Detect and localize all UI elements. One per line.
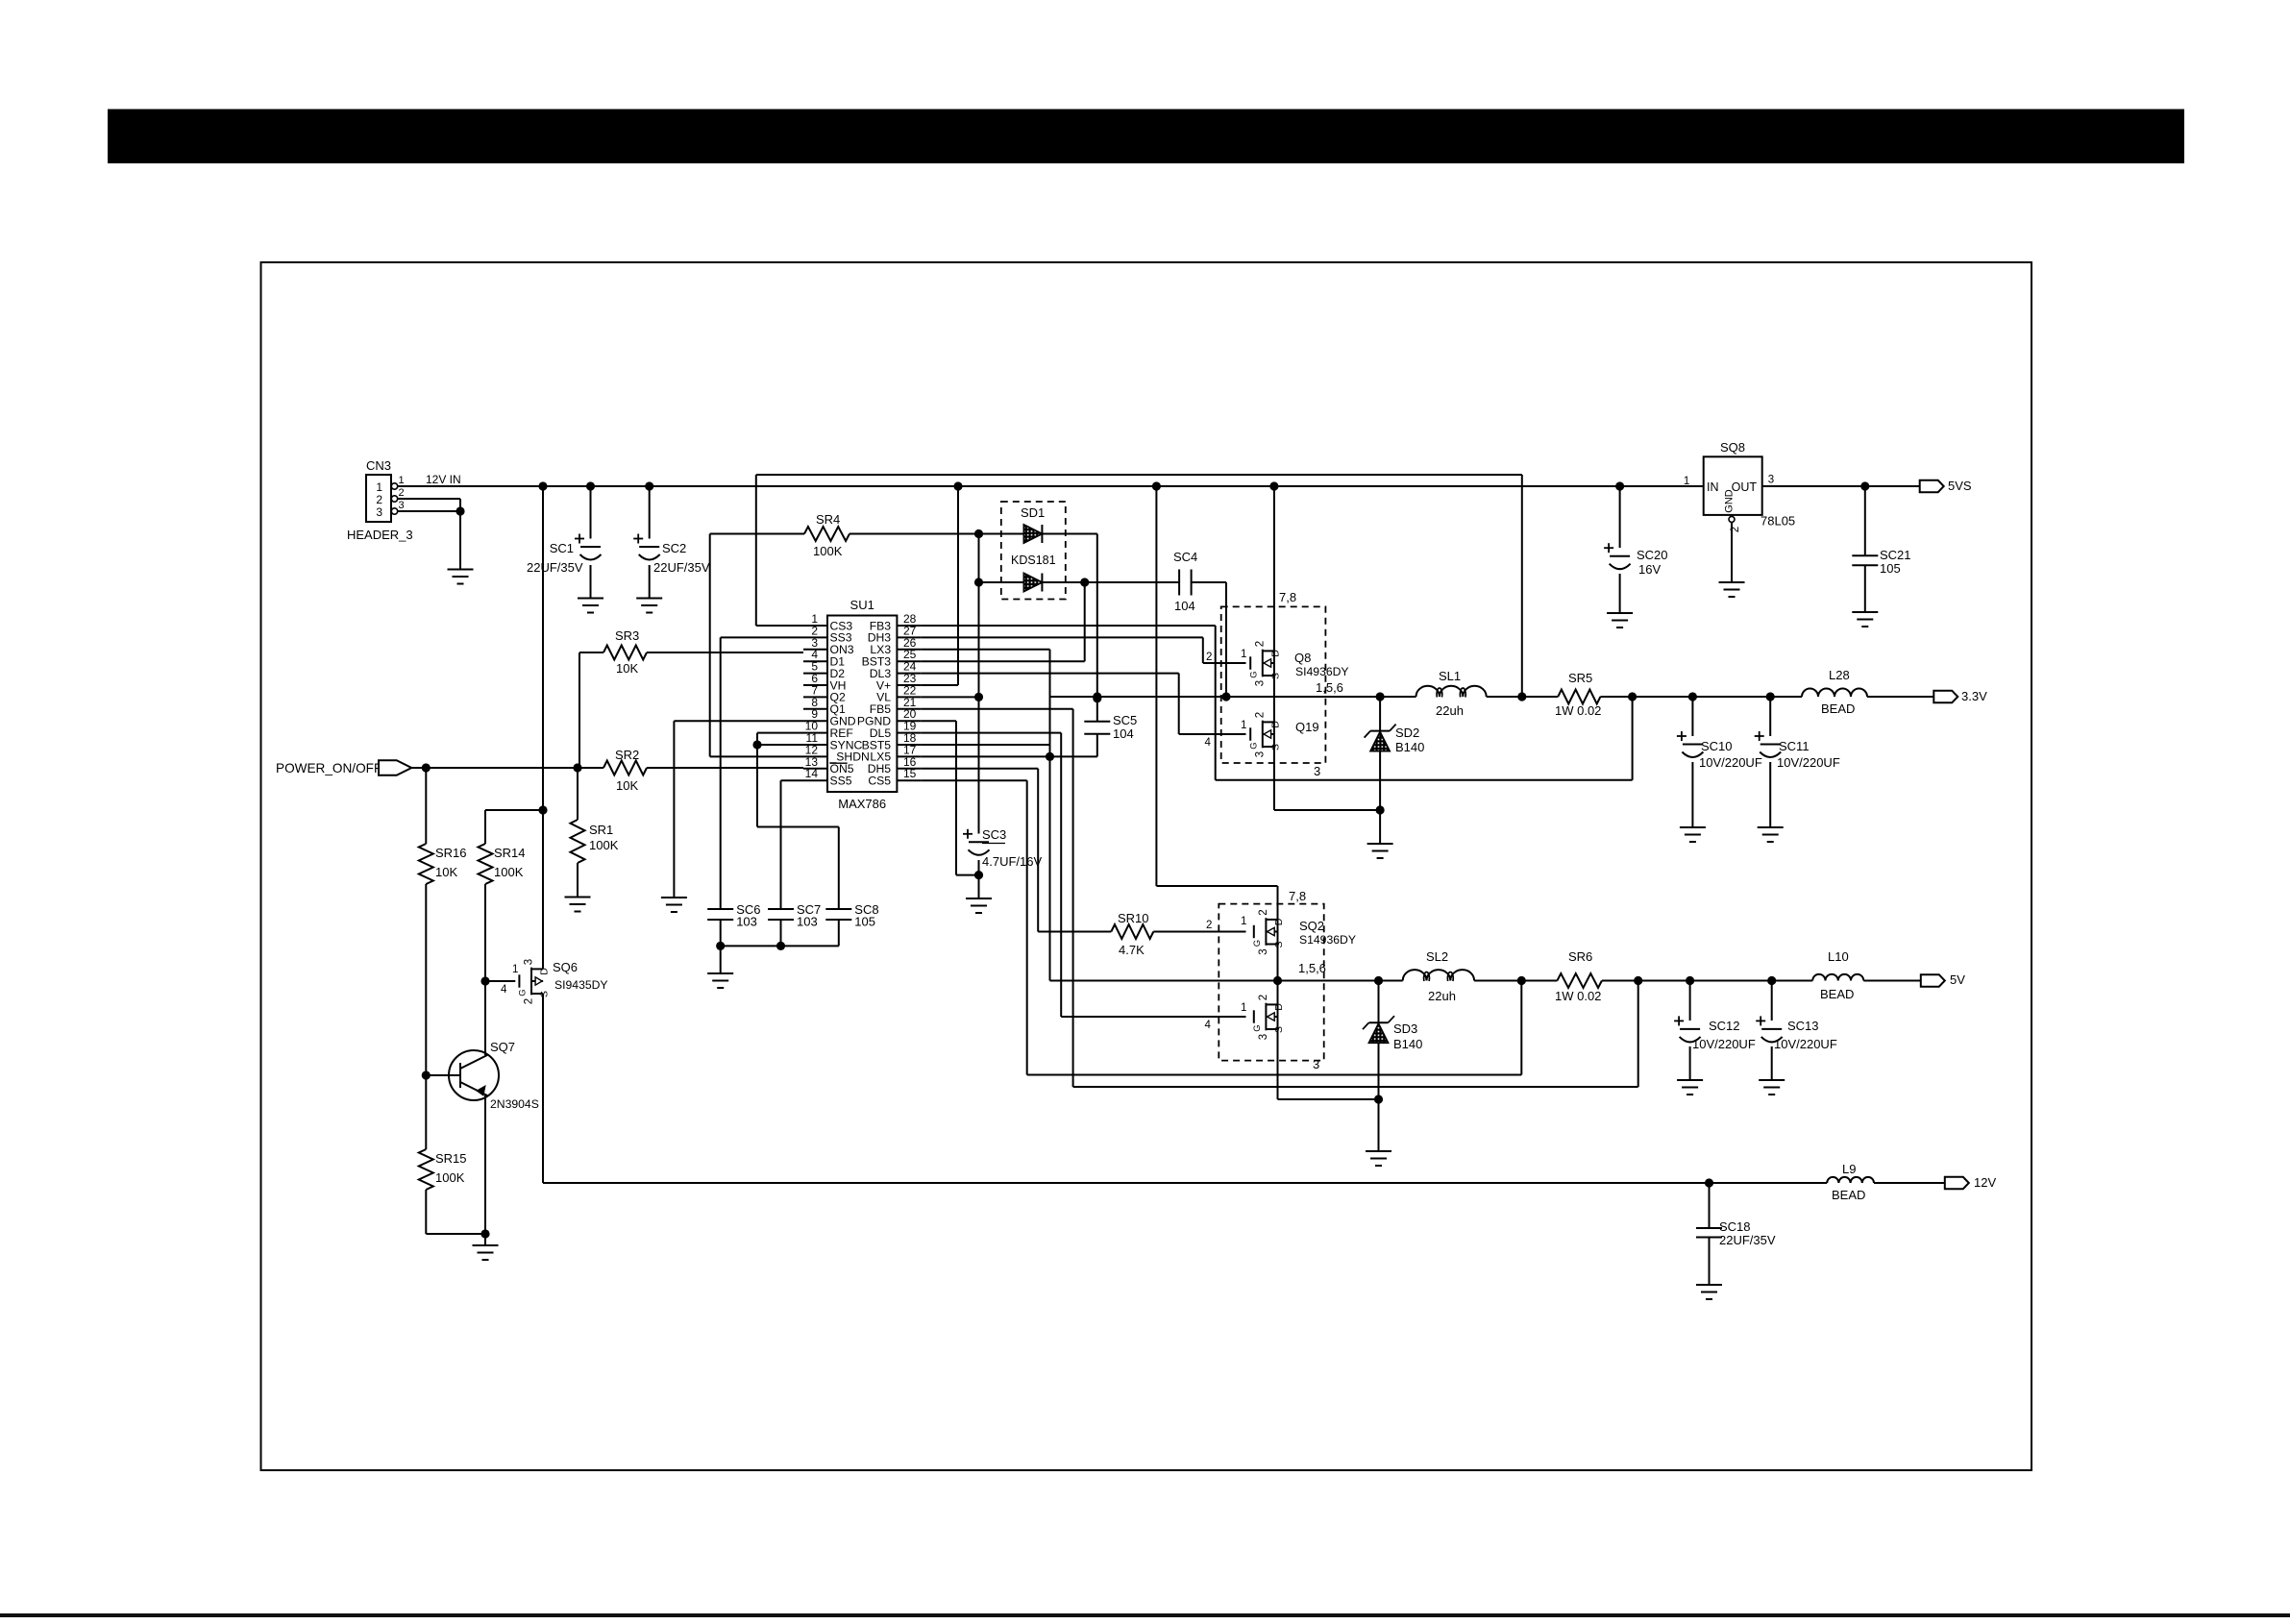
svg-text:1: 1 (1241, 1002, 1246, 1014)
svg-text:12V IN: 12V IN (426, 473, 461, 486)
svg-text:4: 4 (501, 984, 507, 996)
svg-text:SC11: SC11 (1779, 739, 1810, 753)
svg-text:5VS: 5VS (1948, 479, 1972, 493)
svg-text:B140: B140 (1395, 740, 1424, 754)
svg-text:100K: 100K (435, 1170, 465, 1185)
svg-text:SC2: SC2 (662, 541, 686, 555)
svg-text:HEADER_3: HEADER_3 (347, 528, 413, 542)
svg-text:SD1: SD1 (1021, 505, 1045, 520)
svg-text:14: 14 (805, 767, 819, 780)
svg-text:B140: B140 (1393, 1037, 1422, 1051)
svg-text:L9: L9 (1842, 1162, 1856, 1176)
svg-text:D: D (1273, 918, 1285, 925)
svg-text:S: S (1273, 1026, 1285, 1033)
svg-text:16V: 16V (1638, 562, 1661, 577)
svg-text:1,5,6: 1,5,6 (1316, 680, 1343, 695)
svg-text:SQ2: SQ2 (1299, 919, 1324, 933)
svg-text:3: 3 (1258, 948, 1269, 954)
svg-text:D: D (539, 968, 551, 975)
svg-text:G: G (1252, 940, 1263, 947)
svg-text:SI9435DY: SI9435DY (554, 978, 608, 992)
svg-text:SR1: SR1 (589, 823, 613, 837)
svg-text:SD3: SD3 (1393, 1021, 1417, 1036)
svg-text:D: D (1269, 650, 1281, 657)
svg-text:POWER_ON/OFF: POWER_ON/OFF (276, 761, 382, 775)
svg-text:SL1: SL1 (1439, 669, 1461, 683)
svg-text:10V/220UF: 10V/220UF (1692, 1037, 1756, 1051)
svg-text:CS5: CS5 (868, 775, 891, 788)
svg-text:4: 4 (1205, 737, 1212, 749)
svg-text:OUT: OUT (1732, 480, 1758, 494)
svg-text:KDS181: KDS181 (1011, 554, 1056, 567)
svg-text:MAX786: MAX786 (838, 797, 886, 811)
svg-text:G: G (1248, 742, 1259, 749)
svg-text:7,8: 7,8 (1289, 889, 1306, 903)
svg-text:10K: 10K (435, 865, 457, 879)
svg-text:10V/220UF: 10V/220UF (1774, 1037, 1837, 1051)
svg-text:10K: 10K (616, 778, 638, 793)
svg-text:Q8: Q8 (1294, 651, 1311, 665)
svg-text:22UF/35V: 22UF/35V (653, 560, 710, 575)
svg-text:SR6: SR6 (1568, 949, 1592, 964)
svg-text:SU1: SU1 (850, 598, 874, 612)
svg-text:IN: IN (1707, 480, 1719, 494)
svg-text:SQ7: SQ7 (490, 1040, 515, 1054)
svg-text:1: 1 (1241, 720, 1246, 731)
svg-text:D: D (1273, 1003, 1285, 1011)
svg-text:22UF/35V: 22UF/35V (1719, 1233, 1776, 1247)
svg-text:S: S (539, 991, 551, 997)
svg-text:SI4936DY: SI4936DY (1295, 665, 1349, 678)
svg-text:2: 2 (1258, 995, 1269, 1000)
svg-text:SC20: SC20 (1637, 548, 1668, 562)
svg-text:S: S (1269, 744, 1281, 750)
svg-text:G: G (518, 989, 529, 996)
svg-text:2: 2 (399, 487, 405, 499)
svg-text:GND: GND (1724, 489, 1736, 513)
svg-text:5V: 5V (1950, 972, 1965, 987)
svg-text:78L05: 78L05 (1761, 514, 1795, 529)
svg-text:1: 1 (376, 480, 382, 494)
svg-text:SC1: SC1 (550, 541, 574, 555)
svg-text:103: 103 (797, 915, 818, 929)
svg-text:SR10: SR10 (1118, 911, 1149, 925)
svg-text:1W 0.02: 1W 0.02 (1555, 703, 1601, 718)
svg-text:10V/220UF: 10V/220UF (1777, 755, 1840, 770)
svg-text:22UF/35V: 22UF/35V (527, 560, 583, 575)
svg-text:3: 3 (524, 959, 535, 965)
svg-text:2: 2 (1254, 712, 1266, 718)
svg-text:2: 2 (1254, 641, 1266, 647)
svg-text:15: 15 (903, 767, 917, 780)
svg-text:SR4: SR4 (816, 512, 840, 527)
svg-text:1: 1 (512, 964, 518, 975)
svg-text:SC13: SC13 (1787, 1019, 1819, 1033)
svg-text:10V/220UF: 10V/220UF (1699, 755, 1762, 770)
svg-text:CN3: CN3 (366, 458, 391, 473)
svg-text:SC10: SC10 (1701, 739, 1733, 753)
svg-text:103: 103 (736, 915, 757, 929)
svg-text:G: G (1252, 1024, 1263, 1031)
svg-text:3: 3 (1313, 1057, 1319, 1071)
svg-text:SR5: SR5 (1568, 671, 1592, 685)
svg-text:L10: L10 (1828, 949, 1849, 964)
svg-text:L28: L28 (1829, 668, 1850, 682)
svg-text:104: 104 (1174, 599, 1195, 613)
svg-text:10K: 10K (616, 661, 638, 676)
svg-text:4: 4 (1205, 1020, 1212, 1031)
svg-text:3: 3 (376, 505, 382, 519)
svg-text:105: 105 (1880, 561, 1901, 576)
svg-text:SC5: SC5 (1113, 713, 1137, 727)
svg-text:SR3: SR3 (615, 628, 639, 643)
svg-text:SC18: SC18 (1719, 1219, 1751, 1234)
svg-text:7,8: 7,8 (1279, 590, 1296, 604)
svg-text:22uh: 22uh (1436, 703, 1464, 718)
svg-text:1: 1 (399, 475, 405, 486)
svg-text:4.7UF/16V: 4.7UF/16V (982, 854, 1042, 869)
svg-text:1: 1 (1241, 916, 1246, 927)
svg-text:D: D (1269, 721, 1281, 728)
svg-text:S14936DY: S14936DY (1299, 933, 1356, 947)
svg-text:SR16: SR16 (435, 846, 467, 860)
svg-text:3.3V: 3.3V (1961, 689, 1987, 703)
svg-text:SS5: SS5 (830, 775, 852, 788)
svg-text:2: 2 (1206, 920, 1212, 931)
svg-text:4.7K: 4.7K (1119, 943, 1145, 957)
svg-text:3: 3 (1768, 475, 1774, 486)
svg-text:2N3904S: 2N3904S (490, 1097, 539, 1111)
svg-text:SR14: SR14 (494, 846, 526, 860)
svg-text:1: 1 (1241, 649, 1246, 660)
svg-text:3: 3 (1254, 680, 1266, 686)
svg-text:SC4: SC4 (1173, 550, 1197, 564)
svg-text:100K: 100K (589, 838, 619, 852)
svg-text:SR15: SR15 (435, 1151, 467, 1166)
svg-text:S: S (1269, 673, 1281, 679)
svg-text:2: 2 (376, 493, 382, 506)
svg-text:2: 2 (1258, 909, 1269, 915)
svg-text:100K: 100K (813, 544, 843, 558)
svg-text:22uh: 22uh (1428, 989, 1456, 1003)
svg-text:104: 104 (1113, 726, 1134, 741)
svg-text:1: 1 (1684, 476, 1689, 487)
svg-text:Q19: Q19 (1295, 720, 1319, 734)
svg-text:SQ6: SQ6 (553, 960, 578, 974)
svg-text:105: 105 (854, 915, 875, 929)
svg-text:SR2: SR2 (615, 748, 639, 762)
svg-text:3: 3 (399, 500, 405, 511)
svg-text:SC12: SC12 (1709, 1019, 1740, 1033)
svg-text:1,5,6: 1,5,6 (1298, 961, 1326, 975)
svg-text:SC3: SC3 (982, 827, 1006, 842)
svg-text:2: 2 (524, 998, 535, 1004)
svg-text:100K: 100K (494, 865, 524, 879)
svg-text:2: 2 (1206, 652, 1212, 663)
svg-text:BEAD: BEAD (1821, 701, 1855, 716)
svg-text:12V: 12V (1974, 1175, 1996, 1190)
svg-text:G: G (1248, 671, 1259, 677)
svg-text:SC21: SC21 (1880, 548, 1911, 562)
svg-text:3: 3 (1258, 1034, 1269, 1040)
svg-text:SQ8: SQ8 (1720, 440, 1745, 455)
svg-text:BEAD: BEAD (1820, 987, 1854, 1001)
svg-text:SL2: SL2 (1426, 949, 1448, 964)
svg-text:3: 3 (1254, 751, 1266, 757)
svg-text:3: 3 (1314, 764, 1320, 778)
svg-text:S: S (1273, 941, 1285, 947)
svg-text:SD2: SD2 (1395, 726, 1419, 740)
svg-text:BEAD: BEAD (1832, 1188, 1865, 1202)
svg-text:1W 0.02: 1W 0.02 (1555, 989, 1601, 1003)
